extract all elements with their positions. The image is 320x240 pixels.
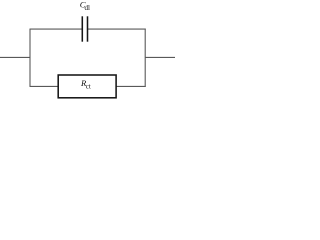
resistor Rct box [58, 75, 116, 98]
svg-text:ct: ct [86, 82, 91, 90]
wire: bottom branch left segment to resistor box [30, 85, 58, 87]
wire: left external lead [0, 56, 30, 58]
capacitor Cdl plates [82, 16, 87, 41]
wire: top branch left segment to capacitor [30, 28, 82, 30]
svg-text:dl: dl [85, 4, 91, 12]
wire: right external lead [145, 56, 175, 58]
wire: top branch right segment from capacitor [88, 28, 146, 30]
wire: right vertical branch [144, 29, 146, 87]
wire: bottom branch right segment from resistor box [116, 85, 146, 87]
wire: left vertical branch [29, 29, 31, 87]
